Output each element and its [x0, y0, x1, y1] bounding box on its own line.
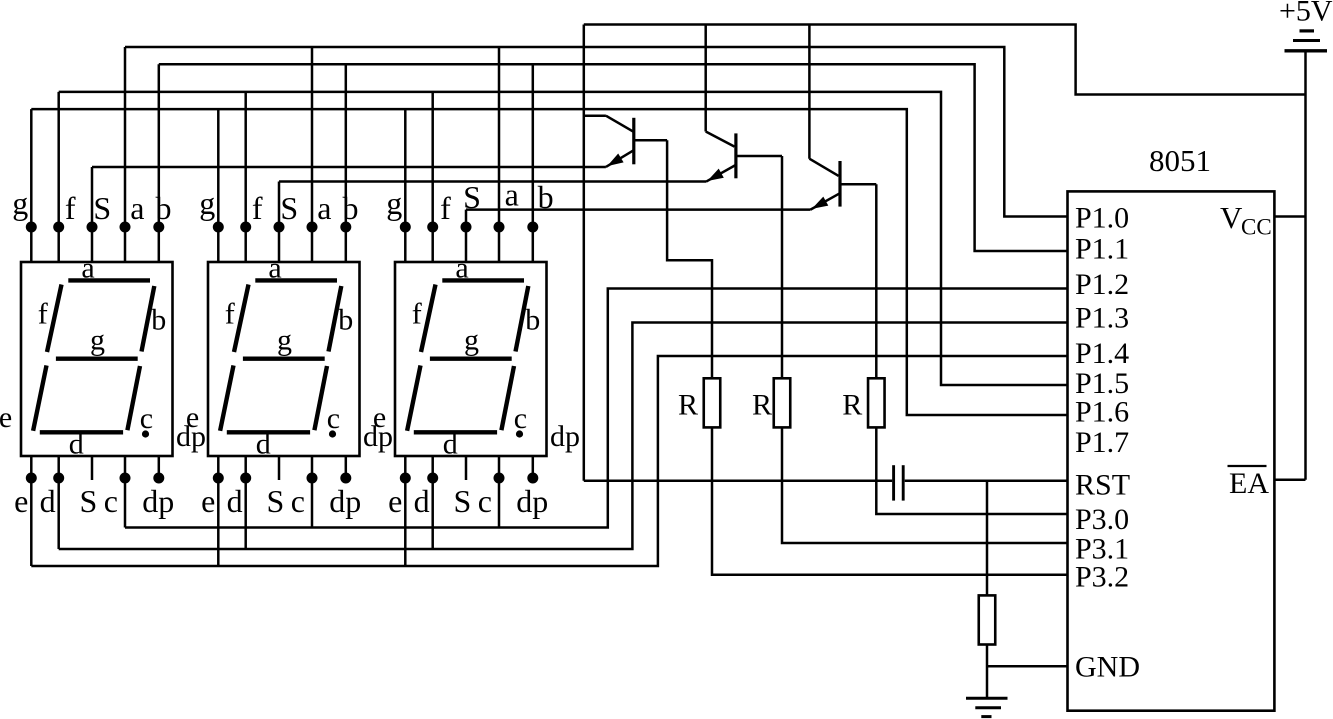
ground symbol — [966, 697, 1008, 700]
DS2 segment f — [234, 285, 249, 353]
net d wire (displays d pins to P1.3) — [59, 323, 1068, 550]
svg-text:R: R — [752, 389, 772, 422]
DS2 segment a — [255, 278, 337, 282]
DS1 bottom pin c dot — [120, 473, 131, 484]
DS1 bottom pin dp dot — [153, 473, 164, 484]
wire S3 (Q3 emitter to DS3 S pin) — [466, 208, 811, 211]
DS3 top pin f junction dot — [427, 222, 438, 233]
DS3 segment e — [407, 365, 420, 430]
net b wire (displays b pins to P1.1) — [159, 64, 1068, 251]
svg-text:CC: CC — [1241, 215, 1272, 240]
transistor Q1 collector stub — [584, 114, 606, 117]
DS2 top pin b junction dot — [340, 222, 351, 233]
svg-text:P3.0: P3.0 — [1075, 503, 1129, 536]
DS2 top pin a junction dot — [307, 222, 318, 233]
DS2 bottom pin S stub — [278, 456, 281, 480]
svg-text:e: e — [186, 401, 199, 434]
DS1 segment g — [56, 357, 138, 361]
DS2 bottom pin d dot — [240, 473, 251, 484]
svg-text:e: e — [388, 483, 402, 519]
DS3 top pin b junction dot — [527, 222, 538, 233]
svg-text:d: d — [227, 483, 243, 519]
DS1 top pin f wire — [57, 92, 60, 262]
svg-text:b: b — [525, 304, 540, 337]
svg-text:d: d — [443, 428, 458, 461]
DS3 top pin S wire — [465, 210, 468, 262]
svg-text:P1.3: P1.3 — [1075, 302, 1129, 335]
DS1 decimal point — [142, 430, 149, 437]
svg-text:dp: dp — [550, 420, 580, 453]
DS3 top pin a wire — [498, 47, 501, 262]
DS1 top pin b junction dot — [153, 222, 164, 233]
svg-text:S: S — [80, 483, 98, 519]
transistor Q3 emitter arrow — [812, 197, 829, 209]
svg-text:c: c — [327, 402, 340, 435]
wire S1 (Q1 emitter to DS1 S pin) — [92, 166, 606, 169]
7-segment display DS1 body — [21, 262, 173, 456]
DS2 segment c — [314, 366, 327, 430]
DS3 bottom pin e wire — [404, 456, 407, 566]
transistor Q1 base wire down to resistor — [667, 140, 712, 378]
DS2 segment e — [220, 365, 233, 430]
DS2 decimal point — [329, 430, 336, 437]
resistor R3 body — [868, 378, 885, 427]
svg-text:c: c — [104, 483, 118, 519]
svg-text:d: d — [40, 483, 56, 519]
transistor Q3 emitter diagonal — [811, 193, 841, 209]
DS2 top pin g wire — [217, 109, 220, 262]
+5V supply symbol — [1300, 29, 1315, 32]
svg-text:d: d — [256, 428, 271, 461]
DS2 bottom pin e dot — [213, 473, 224, 484]
svg-text:RST: RST — [1075, 468, 1130, 501]
svg-text:c: c — [140, 402, 153, 435]
transistor Q2 emitter arrow — [707, 169, 724, 181]
transistor Q2 base bar — [734, 133, 737, 178]
DS2 segment d — [227, 430, 310, 434]
DS3 segment d — [414, 430, 497, 434]
svg-text:d: d — [69, 428, 84, 461]
DS3 top pin g wire — [404, 109, 407, 262]
DS1 bottom pin d wire — [57, 456, 60, 549]
net c wire (displays c pins to P1.2) — [125, 289, 1068, 528]
DS3 segment f — [421, 285, 436, 353]
transistor Q3 base lead wire — [840, 183, 876, 186]
transistor Q1 collector wire from +5V rail — [583, 25, 586, 481]
DS1 bottom pin c wire — [124, 456, 127, 528]
svg-text:c: c — [291, 483, 305, 519]
DS2 segment b — [329, 286, 342, 352]
wire S2 (Q2 emitter to DS2 S pin) — [279, 180, 706, 183]
transistor Q1 emitter arrow — [607, 154, 623, 167]
svg-text:R: R — [678, 389, 698, 422]
DS3 bottom pin d wire — [431, 456, 434, 549]
DS3 top pin S junction dot — [461, 222, 472, 233]
transistor Q3 base bar — [838, 161, 841, 207]
DS1 top pin S wire — [91, 167, 94, 262]
svg-text:a: a — [317, 190, 331, 226]
resistor R2 body — [774, 378, 791, 427]
svg-text:g: g — [277, 323, 292, 356]
DS3 segment a — [442, 278, 524, 282]
+5V top rail wire — [584, 25, 1306, 95]
DS3 top pin f wire — [431, 92, 434, 262]
svg-text:e: e — [201, 483, 215, 519]
svg-text:P3.2: P3.2 — [1075, 561, 1129, 594]
svg-text:d: d — [414, 483, 430, 519]
DS2 bottom pin e wire — [217, 456, 220, 566]
svg-text:g: g — [199, 185, 215, 221]
transistor Q3 base wire down to resistor — [875, 184, 878, 378]
svg-text:dp: dp — [516, 483, 548, 519]
svg-text:+5V: +5V — [1279, 0, 1333, 28]
capacitor C1 left plate — [892, 465, 895, 500]
DS2 bottom pin dp stub — [345, 456, 348, 478]
DS1 bottom pin d dot — [53, 473, 64, 484]
svg-text:b: b — [338, 304, 353, 337]
svg-text:S: S — [267, 483, 285, 519]
DS2 top pin g junction dot — [213, 222, 224, 233]
VCC pin stub wire — [1274, 215, 1305, 218]
DS2 top pin f wire — [244, 92, 247, 262]
DS3 bottom pin dp dot — [527, 473, 538, 484]
DS1 top pin g wire — [30, 109, 33, 262]
DS3 bottom pin e dot — [400, 473, 411, 484]
svg-text:g: g — [90, 323, 105, 356]
DS1 segment d — [40, 430, 123, 434]
reset resistor wire down from RST node — [986, 481, 989, 596]
DS1 bottom pin S stub — [91, 456, 94, 480]
svg-text:S: S — [454, 483, 472, 519]
DS1 bottom pin e dot — [26, 473, 37, 484]
DS2 top pin f junction dot — [240, 222, 251, 233]
transistor Q2 emitter diagonal — [706, 165, 736, 182]
DS2 top pin b wire — [345, 64, 348, 262]
svg-text:S: S — [93, 190, 111, 226]
svg-text:g: g — [386, 185, 402, 221]
svg-text:EA: EA — [1229, 467, 1269, 500]
GND wire to 8051 GND pin — [987, 665, 1068, 668]
DS3 top pin a junction dot — [494, 222, 505, 233]
DS1 top pin S junction dot — [87, 222, 98, 233]
svg-text:b: b — [156, 190, 172, 226]
reset resistor wire to ground — [986, 645, 989, 698]
DS3 segment b — [516, 286, 529, 352]
transistor Q3 collector diagonal — [809, 159, 838, 176]
transistor Q2 collector wire from +5V rail — [704, 25, 707, 132]
svg-text:b: b — [151, 304, 166, 337]
7-segment display DS2 body — [208, 262, 360, 456]
resistor R1 body — [704, 378, 721, 427]
DS2 bottom pin c wire — [311, 456, 314, 528]
transistor Q1 emitter diagonal — [606, 150, 634, 167]
8051 MCU body — [1068, 191, 1275, 710]
DS1 bottom pin dp stub — [158, 456, 161, 478]
DS3 bottom pin d dot — [427, 473, 438, 484]
svg-text:e: e — [373, 401, 386, 434]
svg-text:dp: dp — [142, 483, 174, 519]
DS1 top pin b wire — [158, 64, 161, 262]
DS2 segment g — [243, 357, 325, 361]
svg-text:f: f — [440, 190, 451, 226]
capacitor C1 right plate — [902, 465, 905, 500]
DS3 bottom pin c dot — [494, 473, 505, 484]
DS3 bottom pin dp stub — [532, 456, 535, 478]
svg-text:e: e — [14, 483, 28, 519]
svg-text:b: b — [343, 190, 359, 226]
svg-text:c: c — [478, 483, 492, 519]
net f wire (displays f pins to P1.5) — [59, 92, 1068, 385]
svg-text:P1.7: P1.7 — [1075, 426, 1129, 459]
svg-text:GND: GND — [1075, 651, 1140, 684]
reset resistor body — [979, 595, 996, 644]
svg-text:f: f — [225, 298, 235, 331]
transistor Q2 base lead wire — [736, 155, 782, 158]
DS1 bottom pin e wire — [30, 456, 33, 566]
7-segment display DS3 body — [395, 262, 547, 456]
transistor Q1 base bar — [632, 118, 635, 165]
DS3 segment g — [430, 357, 512, 361]
svg-text:g: g — [12, 185, 28, 221]
DS3 segment c — [501, 366, 514, 430]
DS1 top pin a junction dot — [120, 222, 131, 233]
svg-text:g: g — [464, 323, 479, 356]
resistor R1 wire to P3.2 — [712, 427, 1068, 574]
DS1 top pin f junction dot — [53, 222, 64, 233]
RST wire from capacitor to 8051 RST pin — [905, 479, 1068, 482]
svg-text:P1.2: P1.2 — [1075, 268, 1129, 301]
resistor R3 wire to P3.0 — [876, 427, 1067, 514]
transistor Q2 base wire down to resistor — [781, 156, 784, 378]
svg-text:P1.0: P1.0 — [1075, 201, 1129, 234]
svg-text:f: f — [65, 190, 76, 226]
DS2 bottom pin c dot — [307, 473, 318, 484]
svg-text:S: S — [280, 190, 298, 226]
DS2 top pin S junction dot — [274, 222, 285, 233]
DS3 decimal point — [516, 430, 523, 437]
EA pin stub wire — [1274, 478, 1305, 481]
net a wire (displays a pins to P1.0) — [125, 47, 1068, 217]
DS2 bottom pin dp dot — [340, 473, 351, 484]
DS3 bottom pin c wire — [498, 456, 501, 528]
DS1 top pin g junction dot — [26, 222, 37, 233]
+5V vertical wire to VCC and EA — [1304, 51, 1307, 480]
DS1 top pin a wire — [124, 47, 127, 262]
DS2 bottom pin d wire — [244, 456, 247, 549]
DS2 top pin a wire — [311, 47, 314, 262]
DS3 top pin g junction dot — [400, 222, 411, 233]
net e wire (displays e pins to P1.4) — [31, 356, 1067, 566]
transistor Q1 collector diagonal — [606, 116, 634, 132]
svg-text:f: f — [38, 298, 48, 331]
svg-text:8051: 8051 — [1149, 143, 1211, 178]
DS1 segment c — [127, 366, 140, 430]
svg-text:e: e — [0, 401, 12, 434]
DS3 top pin b wire — [532, 64, 535, 262]
DS1 segment b — [142, 286, 155, 352]
svg-text:P1.6: P1.6 — [1075, 396, 1129, 429]
DS1 segment a — [68, 278, 150, 282]
svg-text:f: f — [412, 298, 422, 331]
RST wire from +5V branch to capacitor — [584, 479, 892, 482]
transistor Q3 collector wire from +5V rail — [808, 25, 811, 159]
svg-text:c: c — [514, 402, 527, 435]
transistor Q1 base lead wire — [634, 139, 667, 142]
DS1 segment e — [33, 365, 46, 430]
svg-text:f: f — [252, 190, 263, 226]
DS1 segment f — [47, 285, 62, 353]
transistor Q2 collector diagonal — [706, 132, 735, 147]
svg-text:V: V — [1220, 200, 1243, 235]
svg-text:P1.1: P1.1 — [1075, 232, 1129, 265]
svg-text:dp: dp — [329, 483, 361, 519]
svg-text:R: R — [842, 389, 862, 422]
svg-text:P1.4: P1.4 — [1075, 337, 1129, 370]
DS2 top pin S wire — [278, 182, 281, 263]
resistor R2 wire to P3.1 — [782, 427, 1068, 543]
svg-text:a: a — [130, 190, 144, 226]
net g wire (displays g pins to P1.6) — [31, 109, 1067, 415]
DS3 bottom pin S stub — [465, 456, 468, 480]
